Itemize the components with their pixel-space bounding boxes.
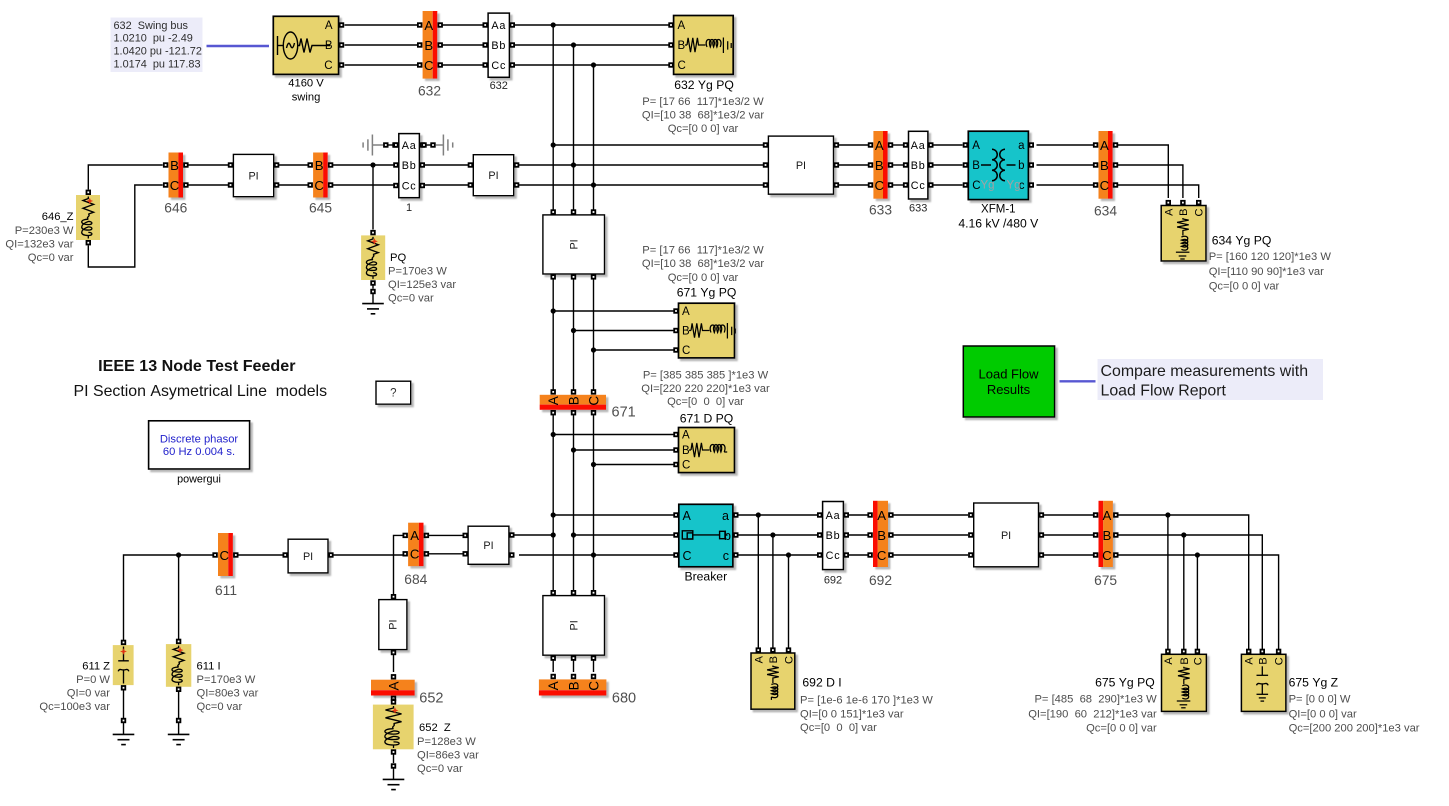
load 632 Yg PQ [674, 16, 734, 75]
svg-text:PI: PI [303, 551, 313, 563]
wire bus632 C to conn632 [443, 64, 484, 66]
svg-text:Qc=0 var: Qc=0 var [197, 701, 243, 713]
svg-text:Discrete phasor: Discrete phasor [160, 433, 239, 445]
svg-text:b: b [1018, 160, 1024, 172]
wire 611Z to ground port [123, 690, 125, 718]
wire tap to 692 D I B [772, 535, 774, 648]
neutral ground symbol left [363, 135, 372, 156]
wire neutral left [372, 144, 383, 146]
svg-text:PI: PI [1001, 530, 1011, 542]
connector block 1 [399, 134, 420, 198]
svg-text:A: A [1163, 657, 1175, 665]
capacitor icon 611 Z [118, 647, 129, 684]
load PQ [361, 235, 385, 280]
wire 646_Z bottom to bus646 C [88, 185, 162, 267]
svg-text:A: A [325, 20, 333, 32]
svg-text:671 Yg PQ: 671 Yg PQ [677, 286, 737, 300]
wire conn632 A to 632 Yg PQ [515, 22, 669, 27]
wire tap B to 671 D PQ [574, 449, 674, 451]
trunk wire C to bus671 [591, 280, 596, 392]
svg-text:C: C [586, 681, 601, 691]
svg-text:Yg: Yg [980, 180, 994, 192]
svg-text:Aa: Aa [402, 140, 417, 152]
wire PI to bus680 B [573, 661, 575, 673]
trunk wire B 671-680 [571, 415, 576, 591]
svg-text:PI: PI [388, 619, 400, 629]
wire 611I to ground port [178, 692, 180, 718]
wire [388, 144, 392, 146]
svg-text:60 Hz 0.004 s.: 60 Hz 0.004 s. [163, 446, 235, 458]
svg-text:P= [17 66 117]*1e3/2 W: P= [17 66 117]*1e3/2 W [642, 244, 764, 256]
svg-text:QI=[190 60 212]*1e3 var: QI=[190 60 212]*1e3 var [1028, 708, 1157, 720]
rl icon 652 Z [385, 706, 402, 748]
svg-text:PI: PI [569, 239, 581, 249]
load 671 D PQ [679, 428, 735, 473]
svg-text:swing: swing [292, 92, 321, 104]
connector block 632 [488, 13, 509, 77]
svg-text:A: A [1244, 657, 1256, 665]
svg-text:QI=[110 90 90]*1e3 var: QI=[110 90 90]*1e3 var [1209, 266, 1324, 278]
bus 692 [873, 501, 888, 567]
pi-line 645-632 section [473, 155, 513, 196]
wire tap to 611 I [178, 555, 180, 639]
transformer XFM-1 [968, 131, 1028, 199]
svg-text:XFM-1: XFM-1 [981, 204, 1016, 216]
svg-text:645: 645 [309, 200, 332, 215]
svg-text:Qc=0 var: Qc=0 var [28, 252, 74, 264]
svg-text:QI=86e3 var: QI=86e3 var [417, 750, 479, 762]
wire PI to bus675 C [1044, 554, 1093, 556]
wire bus692 to PI A [893, 514, 968, 516]
wire source A to bus 632 [345, 24, 418, 26]
wire PI to bus680 A [552, 661, 554, 673]
svg-text:PI: PI [483, 540, 493, 552]
svg-text:Qc=[0 0 0] var: Qc=[0 0 0] var [1086, 722, 1157, 734]
svg-text:B: B [877, 528, 886, 543]
svg-text:652: 652 [419, 691, 443, 707]
svg-text:B: B [566, 396, 581, 405]
wire conn633 to XFM-1 C [933, 184, 963, 186]
bus 645 [313, 153, 328, 198]
load 611 I [166, 644, 191, 687]
wire PI to bus680 C [593, 661, 595, 673]
wire XFM-1 c to bus634 [1037, 184, 1094, 186]
bus 652 [371, 680, 415, 696]
svg-text:Qc=100e3 var: Qc=100e3 var [39, 701, 110, 713]
wire to ground [372, 294, 374, 304]
wire conn632 B to 632 Yg PQ [515, 42, 669, 47]
svg-text:611 Z: 611 Z [82, 661, 110, 673]
svg-text:680: 680 [612, 691, 636, 707]
svg-text:P= [385 385 385 ]*1e3 W: P= [385 385 385 ]*1e3 W [643, 369, 769, 381]
svg-text:634: 634 [1094, 203, 1117, 218]
bus 611 [218, 533, 233, 576]
bus 633 [873, 131, 887, 199]
svg-text:A: A [683, 509, 692, 523]
svg-text:C: C [682, 345, 690, 357]
wire source C to bus 632 [345, 64, 418, 66]
pi-line 646-645 [233, 154, 273, 196]
wire tap B to 671 Yg PQ [574, 330, 674, 332]
svg-text:Qc=[0 0 0] var: Qc=[0 0 0] var [667, 396, 744, 408]
wire PI to bus645 B [279, 164, 308, 166]
wire conn692 to bus692 B [849, 534, 871, 536]
svg-text:B: B [170, 158, 179, 173]
wire tap A to 671 Yg PQ [553, 310, 673, 312]
svg-text:C: C [1192, 657, 1204, 665]
breaker contact symbol [682, 531, 727, 539]
svg-text:B: B [682, 445, 690, 457]
load 675 Yg Z [1241, 654, 1286, 711]
svg-text:Cc: Cc [491, 60, 506, 72]
svg-text:B: B [678, 40, 686, 52]
wire bus684 A to PI [429, 534, 466, 536]
pi-line 684-611 [288, 539, 328, 573]
wire trunk B to breaker [571, 532, 676, 537]
svg-text:646: 646 [164, 200, 187, 215]
wire bus684 C to PI [429, 553, 466, 555]
svg-text:QI=125e3 var: QI=125e3 var [388, 279, 456, 291]
wire bus646 C to PI [188, 184, 228, 186]
wire tap C to 675 Yg PQ [1196, 555, 1198, 649]
bus 632 [423, 11, 438, 79]
block Load Flow Results [963, 346, 1054, 417]
wire PI C to big PI via trunk [519, 182, 763, 187]
svg-text:Results: Results [987, 382, 1031, 397]
trunk wire C 671-680 [591, 415, 596, 591]
svg-text:Breaker: Breaker [684, 570, 727, 584]
svg-text:QI=[0 0 0] var: QI=[0 0 0] var [1289, 708, 1357, 720]
breaker block [679, 504, 733, 567]
wire bus633 to conn633 B [893, 164, 904, 166]
svg-text:692 D I: 692 D I [802, 675, 841, 689]
svg-text:Aa: Aa [911, 140, 926, 152]
wire to ground [178, 723, 180, 734]
svg-text:675 Yg PQ: 675 Yg PQ [1095, 675, 1155, 689]
svg-text:4.16 kV /480 V: 4.16 kV /480 V [958, 217, 1039, 231]
svg-text:Bb: Bb [402, 160, 417, 172]
svg-text:A: A [410, 528, 419, 543]
svg-text:PQ: PQ [390, 252, 406, 264]
svg-text:PI: PI [569, 620, 581, 630]
wire bus632 B to conn632 [443, 44, 484, 46]
svg-text:A: A [424, 18, 433, 33]
svg-text:632 Yg PQ: 632 Yg PQ [674, 78, 734, 92]
annotation swing-bus results [111, 18, 203, 73]
svg-text:692: 692 [824, 574, 842, 586]
svg-text:684: 684 [404, 572, 427, 587]
svg-text:A: A [753, 655, 765, 663]
wire tap to load PQ [372, 165, 374, 230]
svg-text:Bb: Bb [911, 160, 926, 172]
svg-text:B: B [972, 160, 980, 172]
wire tap C to 671 Yg PQ [594, 349, 674, 351]
svg-text:PI: PI [248, 170, 258, 182]
annotation compare measurements [1098, 359, 1324, 400]
svg-text:Load Flow Report: Load Flow Report [1101, 383, 1227, 400]
svg-text:B: B [1257, 657, 1269, 664]
wire PQ to ground port [372, 286, 374, 289]
svg-text:632 Swing bus: 632 Swing bus [114, 20, 189, 32]
connector block 692 [823, 502, 844, 570]
svg-text:A: A [877, 508, 886, 523]
svg-text:611: 611 [215, 583, 237, 598]
wire bus632 A to conn632 [443, 24, 484, 26]
wire bus645 B to conn1 [333, 162, 394, 167]
load 652 Z [373, 705, 414, 750]
svg-text:A: A [972, 140, 980, 152]
svg-text:Yg: Yg [1006, 180, 1020, 192]
svg-text:P= [0 0 0] W: P= [0 0 0] W [1289, 694, 1351, 706]
svg-text:IEEE 13 Node Test Feeder: IEEE 13 Node Test Feeder [98, 357, 296, 375]
wire to ground [123, 723, 125, 734]
svg-text:C: C [1100, 178, 1110, 193]
svg-text:Cc: Cc [402, 180, 417, 192]
ground under 652 Z [383, 779, 405, 789]
svg-text:632: 632 [490, 80, 508, 92]
trunk wire phase C upper [593, 65, 595, 210]
wire source B to bus 632 [345, 44, 418, 46]
wire 611 loads to bus 611 [124, 555, 213, 640]
svg-text:C: C [1194, 208, 1206, 216]
svg-text:B: B [768, 656, 780, 663]
annotation connector line 2 [1060, 380, 1096, 382]
svg-text:a: a [1018, 140, 1025, 152]
svg-text:C: C [324, 60, 332, 72]
wire bus633 to conn633 A [893, 144, 904, 146]
svg-text:C: C [1102, 548, 1112, 563]
svg-text:Qc=0 var: Qc=0 var [388, 293, 434, 305]
svg-text:Qc=[200 200 200]*1e3 var: Qc=[200 200 200]*1e3 var [1289, 722, 1420, 734]
wire bus634 B to load [1118, 165, 1183, 198]
svg-text:A: A [682, 430, 690, 442]
pi-line 692-675 [974, 503, 1039, 567]
svg-text:C: C [410, 547, 420, 562]
svg-text:Qc=[0 0 0] var: Qc=[0 0 0] var [1209, 281, 1280, 293]
svg-text:692: 692 [869, 573, 892, 588]
wire trunk A to breaker [551, 512, 676, 517]
svg-text:?: ? [390, 388, 396, 400]
svg-text:PI Section Asymetrical Line m: PI Section Asymetrical Line models [74, 383, 328, 400]
svg-text:1: 1 [406, 202, 412, 214]
svg-text:Aa: Aa [826, 510, 841, 522]
svg-text:QI=0 var: QI=0 var [67, 688, 110, 700]
svg-text:B: B [1179, 657, 1191, 664]
trunk wire phase B upper [573, 45, 575, 210]
wire 652Z to ground port [393, 755, 395, 764]
wire bus675 B to 675 Yg Z [1118, 535, 1262, 649]
svg-text:A: A [546, 681, 561, 690]
svg-text:C: C [683, 549, 692, 563]
wire bus692 to PI B [893, 534, 968, 536]
svg-text:PI: PI [796, 160, 806, 172]
bus 671 [540, 395, 606, 410]
svg-text:B: B [1178, 209, 1190, 216]
wire bus633 to conn633 C [893, 184, 904, 186]
svg-text:A: A [875, 138, 884, 153]
svg-text:P=230e3 W: P=230e3 W [15, 225, 74, 237]
svg-text:A: A [1100, 138, 1109, 153]
svg-text:Qc=0 var: Qc=0 var [417, 763, 463, 775]
svg-text:a: a [722, 509, 729, 523]
wire PI to bus633 C [839, 184, 868, 186]
svg-text:C: C [784, 656, 796, 664]
load 671 Yg PQ [679, 303, 735, 358]
svg-text:B: B [566, 681, 581, 690]
wire bus675 C to 675 Yg Z [1118, 555, 1279, 649]
svg-text:C: C [678, 60, 686, 72]
svg-text:Compare measurements with: Compare measurements with [1101, 363, 1309, 380]
wire bus634 A to load [1118, 145, 1168, 198]
trunk wire phase A upper [552, 25, 554, 210]
wire PI to bus675 B [1044, 534, 1093, 536]
svg-text:C: C [875, 178, 885, 193]
ground under 611 I [168, 734, 190, 744]
wire tap A to 675 Yg PQ [1167, 515, 1169, 649]
svg-text:671: 671 [612, 405, 636, 421]
pi-line 671-684 [468, 526, 509, 564]
svg-text:C: C [972, 180, 980, 192]
svg-text:A: A [386, 681, 401, 690]
svg-text:P= [485 68 290]*1e3 W: P= [485 68 290]*1e3 W [1034, 694, 1157, 706]
svg-text:B: B [1100, 158, 1109, 173]
wire trunk A to big PI [551, 142, 763, 147]
wire [427, 144, 431, 146]
pi-line 632-633 [768, 136, 833, 194]
svg-text:1.0420 pu -121.72: 1.0420 pu -121.72 [114, 46, 202, 58]
wire 646_Z top to bus646 B [88, 165, 162, 190]
svg-text:4160 V: 4160 V [288, 78, 324, 90]
block help ? [376, 381, 411, 404]
svg-text:B: B [315, 158, 324, 173]
ground under 611 Z [113, 734, 135, 744]
wire XFM-1 a to bus634 [1037, 144, 1094, 146]
wire neutral right [436, 144, 444, 146]
wire PI to bus633 A [839, 144, 868, 146]
load 646_Z [76, 195, 100, 240]
svg-text:611 I: 611 I [197, 661, 221, 673]
pi-line 671-680 (vertical) [543, 596, 605, 656]
bus 646 [169, 153, 184, 198]
svg-text:A: A [546, 396, 561, 405]
svg-text:1.0174 pu 117.83: 1.0174 pu 117.83 [114, 59, 201, 71]
block powergui [149, 421, 250, 469]
svg-text:b: b [724, 529, 731, 543]
wire bus611 to PI [238, 554, 283, 556]
svg-text:P= [1e-6 1e-6 170 ]*1e3 W: P= [1e-6 1e-6 170 ]*1e3 W [800, 695, 933, 707]
wire bus634 C to load [1118, 185, 1199, 198]
wire conn692 to bus692 C [849, 554, 871, 556]
svg-text:B: B [424, 38, 433, 53]
svg-text:Cc: Cc [911, 180, 926, 192]
svg-text:Cc: Cc [826, 550, 841, 562]
wire breaker c to conn692 [739, 552, 818, 557]
svg-text:QI=132e3 var: QI=132e3 var [5, 239, 73, 251]
wire tap C to 671 D PQ [594, 464, 674, 466]
svg-text:1.0210 pu -2.49: 1.0210 pu -2.49 [114, 33, 193, 45]
wire conn633 to XFM-1 A [933, 144, 963, 146]
wire PI to bus675 A [1044, 514, 1093, 516]
wire PI to bus645 C [279, 184, 308, 186]
svg-text:QI=80e3 var: QI=80e3 var [197, 688, 259, 700]
wire tap A to 671 D PQ [553, 434, 673, 436]
wire tap to 692 D I A [757, 515, 759, 648]
wire conn632 C to 632 Yg PQ [515, 62, 669, 67]
svg-text:B: B [875, 158, 884, 173]
bus 680 [539, 679, 607, 695]
svg-text:Qc=[0 0 0] var: Qc=[0 0 0] var [668, 272, 739, 284]
wire PI to bus684 C [334, 554, 403, 556]
svg-text:Load Flow: Load Flow [979, 367, 1040, 382]
svg-text:Bb: Bb [491, 40, 506, 52]
svg-text:C: C [877, 548, 887, 563]
svg-text:A: A [1103, 508, 1112, 523]
wire PI to bus652 [393, 655, 395, 672]
svg-text:P= [160 120 120]*1e3 W: P= [160 120 120]*1e3 W [1209, 251, 1332, 263]
wire breaker b to conn692 [739, 532, 818, 537]
svg-text:QI=[0 0 151]*1e3 var: QI=[0 0 151]*1e3 var [800, 708, 904, 720]
svg-text:652 Z: 652 Z [419, 722, 451, 734]
wire PI C to breaker via trunk [519, 552, 676, 557]
svg-text:A: A [678, 20, 686, 32]
svg-text:P= [17 66 117]*1e3/2 W: P= [17 66 117]*1e3/2 W [642, 96, 764, 108]
svg-text:Bb: Bb [826, 530, 841, 542]
svg-text:A: A [1163, 208, 1175, 216]
svg-text:P=170e3 W: P=170e3 W [388, 266, 447, 278]
svg-text:P=0 W: P=0 W [76, 674, 110, 686]
bus 675 [1099, 501, 1113, 567]
annotation connector line [207, 45, 270, 47]
wire bus692 to PI C [893, 554, 968, 556]
svg-text:QI=[10 38 68]*1e3/2 var: QI=[10 38 68]*1e3/2 var [642, 258, 764, 270]
load 692 D I [751, 653, 795, 709]
svg-text:C: C [170, 178, 180, 193]
neutral ground symbol right [443, 135, 452, 156]
load 675 Yg PQ [1162, 654, 1207, 711]
wire tap to 692 D I C [788, 555, 790, 648]
svg-text:B: B [682, 326, 690, 338]
svg-text:B: B [1103, 528, 1112, 543]
svg-text:C: C [424, 58, 434, 73]
svg-text:P=170e3 W: P=170e3 W [197, 674, 256, 686]
bus 634 [1099, 131, 1113, 199]
svg-text:powergui: powergui [177, 473, 221, 485]
wire bus652 to 652 Z [393, 699, 395, 702]
svg-text:634 Yg PQ: 634 Yg PQ [1212, 234, 1272, 248]
svg-text:QI=[220 220 220]*1e3 var: QI=[220 220 220]*1e3 var [641, 383, 770, 395]
wire tap B to 675 Yg PQ [1183, 535, 1185, 649]
source 4160V swing [273, 16, 338, 74]
svg-text:Qc=[0 0 0] var: Qc=[0 0 0] var [668, 123, 739, 135]
svg-text:675: 675 [1094, 573, 1117, 588]
wire bus645 C to conn1 [333, 184, 394, 186]
wire to ground [393, 769, 395, 780]
svg-text:C: C [586, 396, 601, 406]
connector block 633 [909, 131, 928, 199]
svg-text:646_Z: 646_Z [42, 211, 74, 223]
wire conn692 to bus692 A [849, 514, 871, 516]
svg-text:PI: PI [488, 170, 498, 182]
pi-line 684-652 (vertical) [379, 600, 407, 650]
svg-text:Aa: Aa [491, 20, 506, 32]
ground under PQ [362, 304, 384, 314]
svg-text:P=128e3 W: P=128e3 W [417, 736, 476, 748]
trunk wire A 671-680 [551, 415, 556, 591]
svg-text:QI=[10 38 68]*1e3/2 var: QI=[10 38 68]*1e3/2 var [642, 109, 764, 121]
wire PI A to trunk [514, 532, 556, 537]
wire XFM-1 b to bus634 [1037, 164, 1094, 166]
svg-text:C: C [314, 178, 324, 193]
